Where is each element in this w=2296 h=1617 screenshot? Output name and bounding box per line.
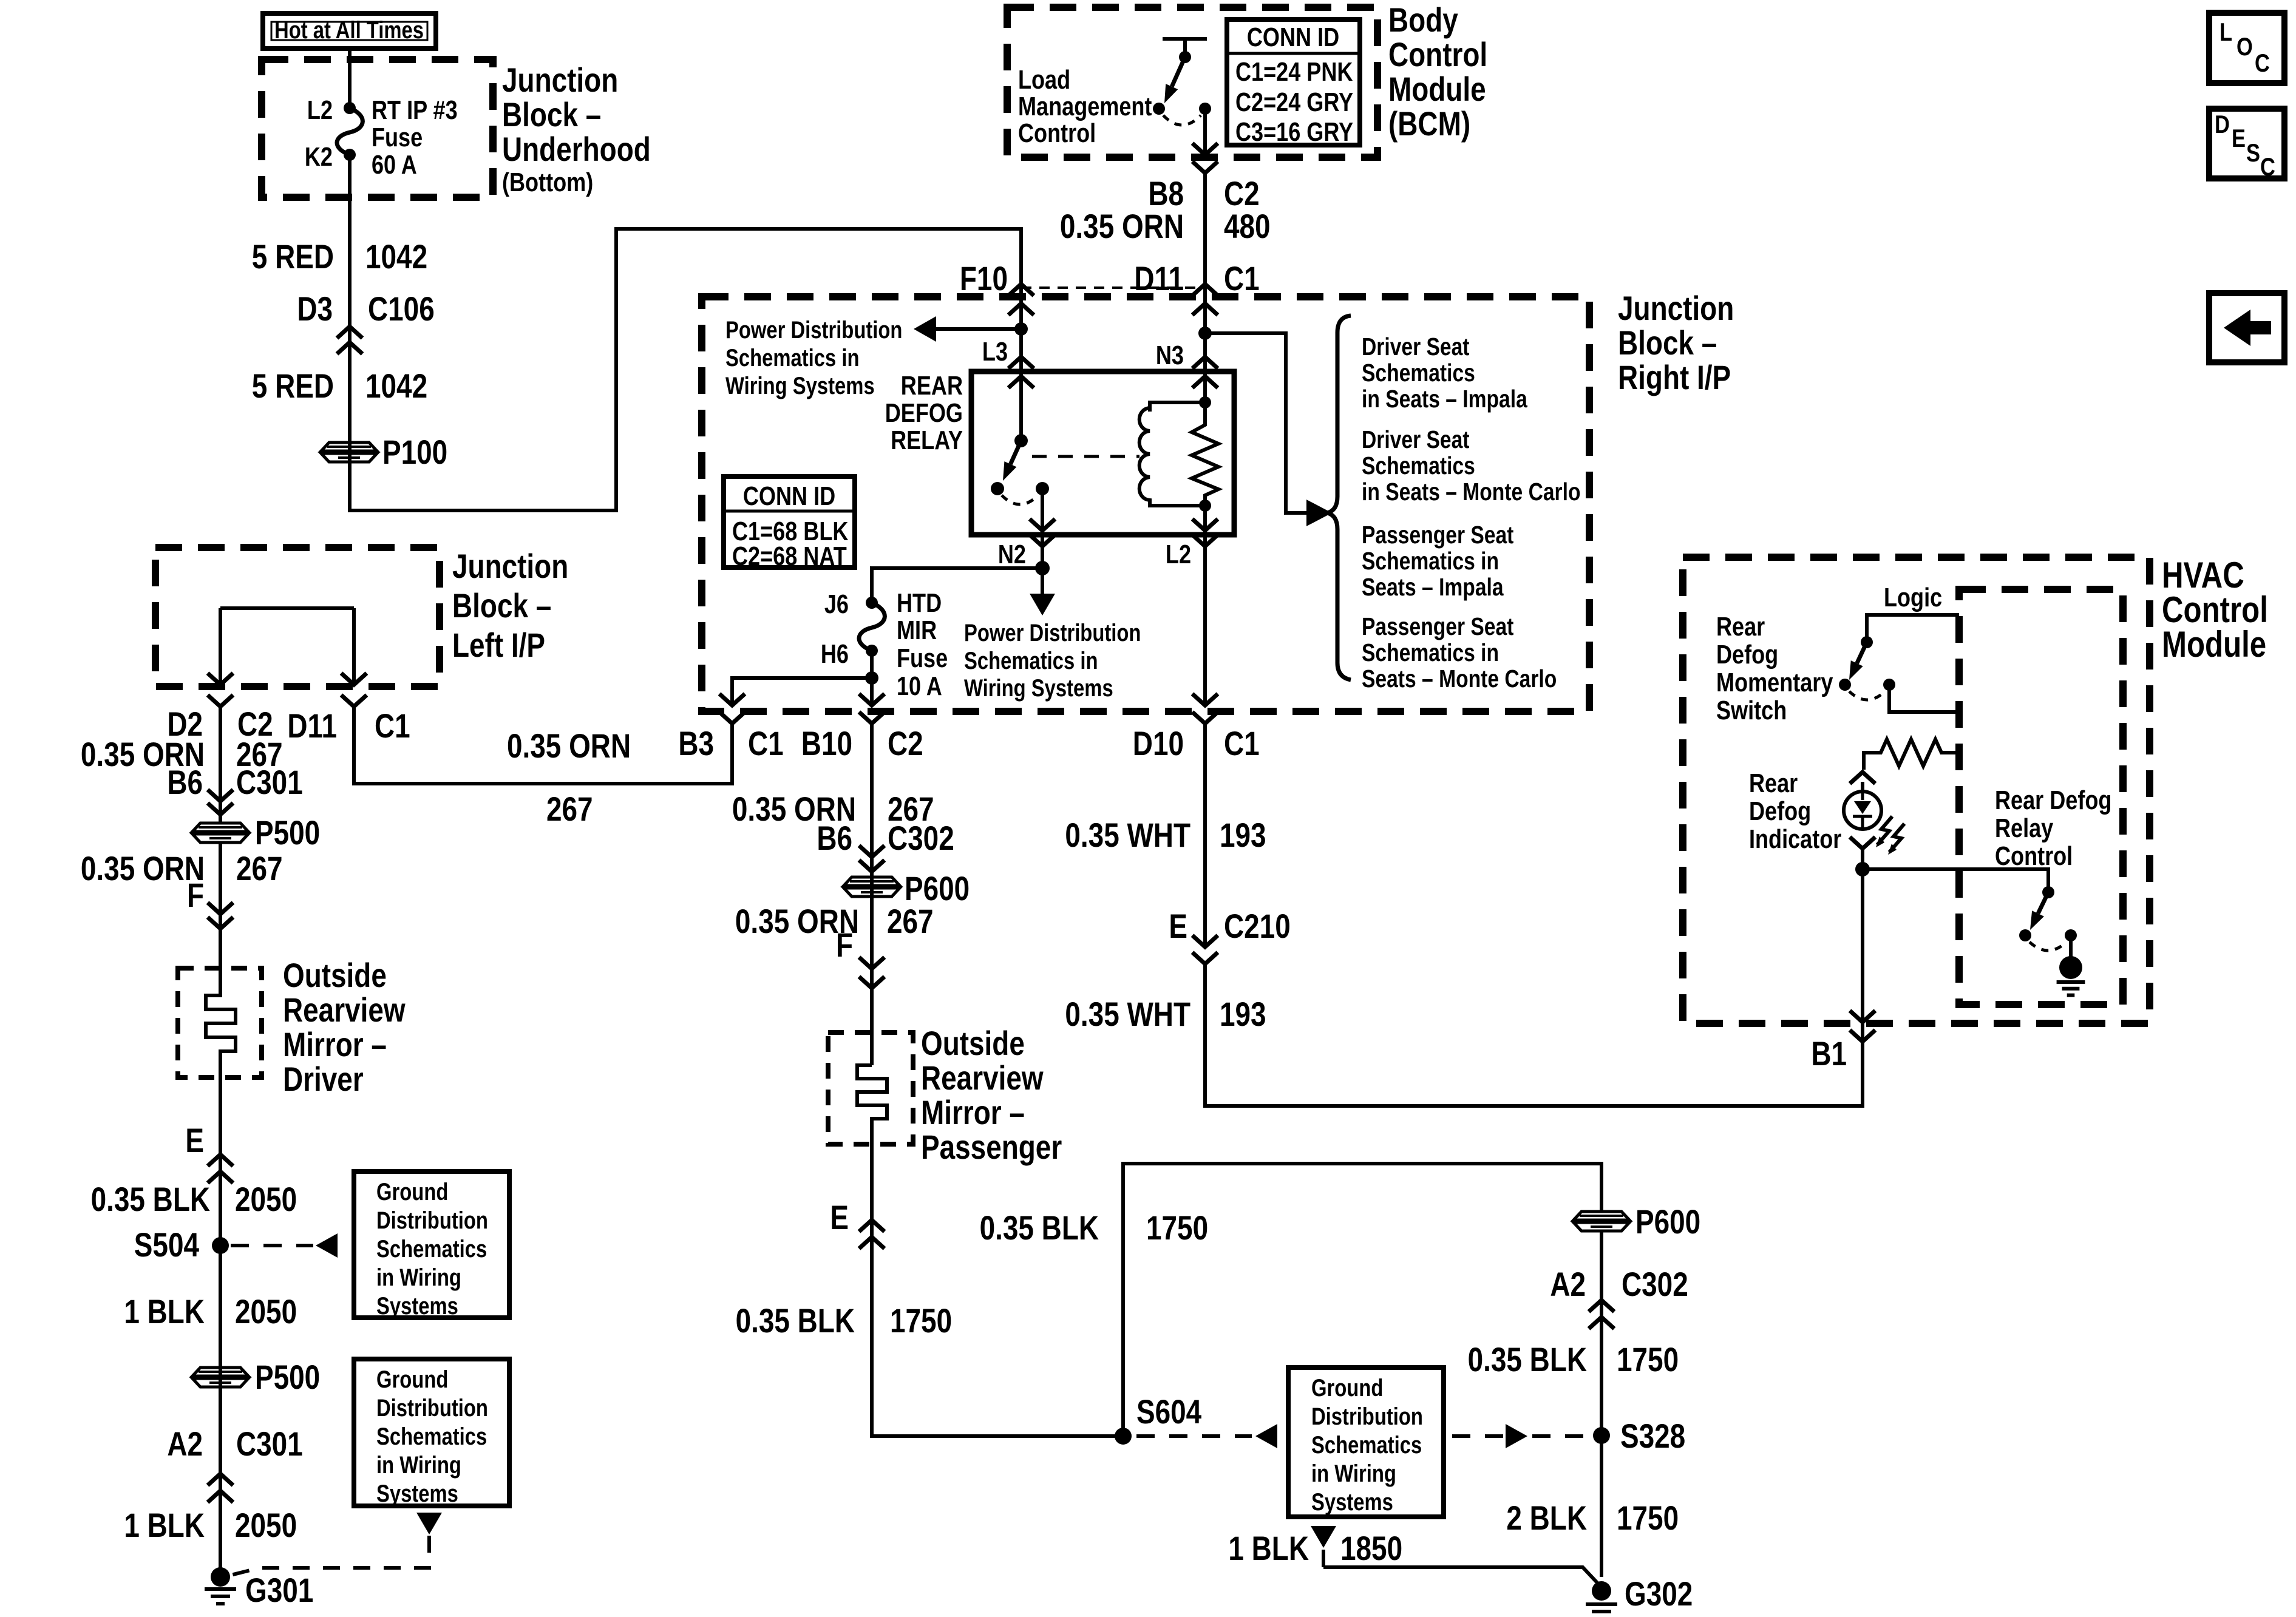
wire left IP D2 drop xyxy=(219,608,222,685)
connector crossing below left C1 xyxy=(341,695,367,707)
svg-text:B6: B6 xyxy=(817,819,852,857)
label 0.35 BLK (driver) xyxy=(91,1181,210,1218)
svg-text:Schematics: Schematics xyxy=(1362,452,1475,480)
fuse HTD MIR 10 A element xyxy=(859,603,885,651)
wire N3 to coil top xyxy=(1203,371,1207,402)
svg-text:E: E xyxy=(185,1122,204,1159)
node relay control pivot dot xyxy=(2042,886,2054,898)
label C2 (B10) xyxy=(888,725,923,762)
svg-text:F: F xyxy=(836,926,853,964)
label 1750 (s328) xyxy=(1617,1341,1679,1378)
label HVAC Control Module xyxy=(2162,554,2268,665)
svg-text:C1: C1 xyxy=(375,707,410,745)
wire coil bottom branch xyxy=(1150,504,1205,506)
svg-text:0.35 ORN: 0.35 ORN xyxy=(1060,208,1184,245)
label S504 xyxy=(134,1226,200,1264)
svg-text:RT IP #3: RT IP #3 xyxy=(372,95,458,125)
node indicator junction dot xyxy=(1855,862,1870,876)
connector chevron above LED xyxy=(1850,772,1875,784)
svg-text:Rear: Rear xyxy=(1749,768,1798,798)
wire 0.35 WHT 193 lower to HVAC B1 xyxy=(1205,964,1863,1106)
svg-text:Defog: Defog xyxy=(1749,796,1811,826)
relay control switch lever xyxy=(2030,892,2048,930)
label Load Management Control xyxy=(1018,65,1152,148)
pin label B6 (C302) xyxy=(817,819,852,857)
svg-text:Wiring Systems: Wiring Systems xyxy=(725,372,875,399)
dashed reference S604 to ground distribution xyxy=(1136,1424,1277,1448)
svg-text:Passenger: Passenger xyxy=(921,1128,1062,1166)
svg-text:0.35 WHT: 0.35 WHT xyxy=(1065,816,1190,854)
wire F10 to L3 node xyxy=(1019,297,1023,371)
label 2 BLK xyxy=(1506,1499,1587,1537)
pin label L3 xyxy=(982,337,1008,367)
wire 0.35 ORN 267 to driver mirror xyxy=(219,707,222,824)
wire H6 down to splice xyxy=(870,651,874,678)
junction block - left IP (dashed box) xyxy=(155,547,440,686)
pin label B6 (C301) xyxy=(167,764,203,801)
label 0.35 WHT (2) xyxy=(1065,995,1190,1033)
label 0.35 ORN (pass) xyxy=(732,790,856,828)
grommet P500 (ground side) xyxy=(192,1368,248,1387)
svg-text:Left I/P: Left I/P xyxy=(452,626,545,664)
label 193 xyxy=(1220,816,1266,854)
arrow at D10 exit xyxy=(1192,694,1218,705)
body control module BCM (dashed box) xyxy=(1007,7,1377,157)
wire left IP C1 drop xyxy=(352,608,356,685)
svg-text:2050: 2050 xyxy=(235,1507,297,1544)
svg-text:in Wiring: in Wiring xyxy=(1311,1460,1396,1487)
label xyxy=(502,96,651,197)
label 0.35 ORN (driver) xyxy=(81,736,205,773)
wire 0.35 ORN 267 B3 to left IP C1 xyxy=(354,705,732,784)
svg-text:Fuse: Fuse xyxy=(372,123,423,152)
reference arrow to power distribution (left) xyxy=(914,316,1021,342)
svg-text:D3: D3 xyxy=(297,290,333,328)
connector crossing at passenger mirror E xyxy=(859,1220,885,1249)
svg-text:1750: 1750 xyxy=(1146,1209,1208,1247)
svg-text:Outside: Outside xyxy=(921,1025,1025,1062)
pin label B1 xyxy=(1811,1035,1847,1073)
pin label E (passenger) xyxy=(830,1199,849,1236)
wire relay switch arm feed xyxy=(1019,371,1023,441)
splice S504 xyxy=(212,1237,229,1254)
label 1 BLK (1850) xyxy=(1228,1530,1309,1567)
label Junction Block - Right I/P xyxy=(1618,290,1734,396)
wire P600 to mirror passenger xyxy=(870,896,874,1065)
label 0.35 BLK (s604) xyxy=(980,1209,1099,1247)
node relay contact right dot xyxy=(1036,482,1049,495)
svg-text:N3: N3 xyxy=(1156,341,1184,370)
wire BCM output to B8 xyxy=(1203,109,1207,157)
label Body Control Module (BCM) xyxy=(1388,1,1487,143)
grommet P500 xyxy=(192,823,248,842)
wire 5 RED 1042 from fuse K2 down to P100 xyxy=(348,155,352,452)
svg-text:1750: 1750 xyxy=(1617,1341,1679,1378)
label box Hot at All Times xyxy=(263,13,436,49)
svg-text:Schematics in: Schematics in xyxy=(725,344,859,371)
svg-text:Ground: Ground xyxy=(376,1366,448,1393)
svg-text:Control: Control xyxy=(1018,118,1096,148)
svg-text:2050: 2050 xyxy=(235,1181,297,1218)
svg-text:L2: L2 xyxy=(1166,540,1191,569)
svg-text:Right I/P: Right I/P xyxy=(1618,359,1731,396)
svg-text:2 BLK: 2 BLK xyxy=(1506,1499,1587,1537)
pin label F (passenger) xyxy=(836,926,853,964)
node BCM switch contact right xyxy=(1199,103,1211,115)
svg-text:Passenger Seat: Passenger Seat xyxy=(1362,521,1514,549)
svg-text:Junction: Junction xyxy=(502,61,618,99)
svg-text:Logic: Logic xyxy=(1884,583,1942,612)
conn id table junction block right IP xyxy=(724,476,855,571)
ground G301 xyxy=(205,1567,236,1604)
svg-text:0.35 BLK: 0.35 BLK xyxy=(1468,1341,1587,1378)
svg-text:(Bottom): (Bottom) xyxy=(502,168,593,197)
svg-text:S604: S604 xyxy=(1136,1393,1202,1431)
relay coil winding xyxy=(1140,408,1150,506)
label 0.35 ORN (driver 2) xyxy=(81,850,205,887)
label 1750 (s604) xyxy=(1146,1209,1208,1247)
connector crossing below relay N2 xyxy=(1030,535,1055,546)
svg-text:Rearview: Rearview xyxy=(921,1059,1044,1097)
svg-text:S: S xyxy=(2246,139,2260,168)
svg-text:in Seats – Impala: in Seats – Impala xyxy=(1362,385,1528,413)
pin label F (driver) xyxy=(187,876,204,914)
svg-text:Body: Body xyxy=(1388,1,1458,39)
svg-text:Hot at All Times: Hot at All Times xyxy=(274,16,424,44)
reference arrow G301 to ground distribution box xyxy=(416,1513,442,1534)
svg-text:C301: C301 xyxy=(236,1425,303,1463)
resistor rear defog indicator xyxy=(1864,739,1959,770)
label 267 (driver 2) xyxy=(236,850,283,887)
svg-text:C1: C1 xyxy=(748,725,784,762)
svg-text:C210: C210 xyxy=(1224,907,1291,945)
svg-text:P100: P100 xyxy=(382,433,447,471)
wire junction to relay control switch xyxy=(1863,869,2048,892)
arrow at HVAC B1 exit xyxy=(1850,1011,1875,1022)
arrow at relay N2 exit xyxy=(1030,519,1055,531)
connector crossing at BCM B8 output xyxy=(1192,143,1218,173)
svg-text:Underhood: Underhood xyxy=(502,131,651,168)
svg-text:Schematics in: Schematics in xyxy=(1362,547,1499,575)
svg-text:267: 267 xyxy=(887,903,934,940)
svg-text:Seats – Impala: Seats – Impala xyxy=(1362,573,1504,601)
reference box Ground Distribution Schematics (S604/S328) xyxy=(1288,1368,1444,1517)
svg-text:1 BLK: 1 BLK xyxy=(124,1507,205,1544)
dashed reference G301 path xyxy=(228,1536,429,1576)
grommet P100 xyxy=(321,442,377,462)
svg-text:193: 193 xyxy=(1220,816,1266,854)
label 2050 (3) xyxy=(235,1507,297,1544)
svg-text:Power Distribution: Power Distribution xyxy=(964,619,1141,646)
svg-text:REAR: REAR xyxy=(901,371,963,401)
label RT IP #3 Fuse 60 A xyxy=(372,95,458,180)
node relay control contact left xyxy=(2019,929,2031,941)
pin label E (C210) xyxy=(1169,907,1187,945)
label Passenger Seat Schematics in Seats - Monte Carlo xyxy=(1362,612,1557,693)
label C2 (left IP) xyxy=(237,705,273,743)
svg-text:J6: J6 xyxy=(824,589,849,619)
reference box Ground Distribution Schematics (S504) xyxy=(354,1171,509,1320)
rear defog relay control (dashed box) xyxy=(1959,589,2123,1005)
label 1042 (2) xyxy=(365,367,427,405)
wire P500 to mirror driver xyxy=(219,842,222,929)
svg-text:A2: A2 xyxy=(1550,1266,1586,1303)
svg-text:0.35 BLK: 0.35 BLK xyxy=(736,1302,855,1340)
label C106 xyxy=(368,290,435,328)
node relay switch pivot dot xyxy=(1014,434,1028,447)
svg-text:DEFOG: DEFOG xyxy=(885,398,963,428)
connector crossing at driver mirror F xyxy=(208,903,233,929)
rear defog relay box xyxy=(971,371,1234,535)
svg-text:C: C xyxy=(2255,49,2270,78)
wire N3 branch to seat schematics reference xyxy=(1205,333,1306,513)
svg-text:Rearview: Rearview xyxy=(283,991,406,1029)
svg-text:S504: S504 xyxy=(134,1226,200,1264)
svg-text:K2: K2 xyxy=(305,142,333,172)
svg-text:C302: C302 xyxy=(888,819,954,857)
node coil bottom junction dot xyxy=(1199,500,1211,512)
label S604 xyxy=(1136,1393,1202,1431)
svg-text:P500: P500 xyxy=(255,814,320,852)
arrow at relay L2 exit xyxy=(1192,519,1218,531)
pin label E (driver) xyxy=(185,1122,204,1159)
heater element mirror passenger xyxy=(857,1065,887,1144)
svg-text:C302: C302 xyxy=(1622,1266,1688,1303)
label 0.35 BLK (s328) xyxy=(1468,1341,1587,1378)
svg-text:Relay: Relay xyxy=(1995,813,2054,843)
svg-text:C3=16 GRY: C3=16 GRY xyxy=(1235,117,1353,147)
svg-text:Switch: Switch xyxy=(1716,696,1787,725)
label Junction Block - Left I/P xyxy=(452,547,568,664)
label P500 (2) xyxy=(255,1358,320,1396)
svg-text:Module: Module xyxy=(1388,70,1486,108)
node H6 terminal dot xyxy=(866,645,878,657)
svg-text:P500: P500 xyxy=(255,1358,320,1396)
svg-text:Momentary: Momentary xyxy=(1716,668,1833,697)
connector crossing below relay L2 xyxy=(1192,535,1218,546)
svg-text:Driver Seat: Driver Seat xyxy=(1362,333,1470,361)
svg-text:1750: 1750 xyxy=(890,1302,952,1340)
svg-text:F: F xyxy=(187,876,204,914)
label HTD MIR Fuse 10 A xyxy=(897,588,948,701)
svg-text:S328: S328 xyxy=(1620,1417,1685,1455)
svg-text:1 BLK: 1 BLK xyxy=(124,1293,205,1331)
svg-text:C2: C2 xyxy=(888,725,923,762)
svg-text:Wiring Systems: Wiring Systems xyxy=(964,674,1113,702)
svg-text:Control: Control xyxy=(1995,841,2073,871)
label REAR DEFOG RELAY xyxy=(885,371,963,455)
pin label D3 xyxy=(297,290,333,328)
svg-text:L: L xyxy=(2220,18,2232,47)
node L3 junction dot xyxy=(1014,322,1028,336)
svg-text:(BCM): (BCM) xyxy=(1388,105,1470,143)
label C2 (BCM) xyxy=(1224,175,1260,212)
label 267 (pass 2) xyxy=(887,903,934,940)
label Junction Block - Underhood xyxy=(502,61,618,99)
svg-text:Block –: Block – xyxy=(502,96,601,134)
svg-text:Schematics: Schematics xyxy=(1362,359,1475,387)
label Outside Rearview Mirror - Driver xyxy=(283,957,406,1098)
junction block - underhood (dashed box) xyxy=(262,59,493,197)
svg-text:0.35 WHT: 0.35 WHT xyxy=(1065,995,1190,1033)
connector C301 ground in-line symbol xyxy=(208,1474,233,1502)
node N2 branch junction dot xyxy=(1035,561,1050,575)
svg-text:Mirror –: Mirror – xyxy=(283,1026,387,1063)
label 1750 (pass) xyxy=(890,1302,952,1340)
svg-text:C2=68 NAT: C2=68 NAT xyxy=(732,541,847,571)
svg-text:C106: C106 xyxy=(368,290,435,328)
svg-text:Rear: Rear xyxy=(1716,612,1765,642)
label C1 (B3) xyxy=(748,725,784,762)
connector C301 in-line symbol xyxy=(208,790,233,815)
svg-text:P600: P600 xyxy=(1635,1203,1700,1241)
dashed arc momentary switch throw xyxy=(1849,691,1885,700)
wire 0.35 BLK 2050 to S504 xyxy=(219,1171,222,1577)
wire indicator junction to B1 xyxy=(1861,869,1864,1023)
wire momentary switch output xyxy=(1889,685,1959,712)
wire resistor to LED xyxy=(1861,782,1864,793)
svg-text:1750: 1750 xyxy=(1617,1499,1679,1537)
svg-text:Block –: Block – xyxy=(1618,324,1717,362)
svg-text:D11: D11 xyxy=(287,707,337,745)
svg-text:HTD: HTD xyxy=(897,588,942,618)
svg-text:Junction: Junction xyxy=(452,547,568,585)
connector crossing at relay L3 xyxy=(1008,357,1034,388)
splice S604 xyxy=(1115,1428,1132,1445)
svg-text:0.35 ORN: 0.35 ORN xyxy=(81,850,205,887)
svg-text:P600: P600 xyxy=(905,870,970,907)
svg-text:D: D xyxy=(2215,110,2230,139)
ground inside relay control xyxy=(2057,935,2085,995)
label P100 xyxy=(382,433,447,471)
connector crossing below D10 xyxy=(1192,712,1218,724)
label 1042 xyxy=(365,238,427,276)
svg-text:5 RED: 5 RED xyxy=(252,367,334,405)
label G302 xyxy=(1625,1575,1693,1613)
pin label N3 xyxy=(1156,341,1184,370)
connector crossing at D11 C1 xyxy=(1192,284,1218,315)
svg-text:0.35 BLK: 0.35 BLK xyxy=(980,1209,1099,1247)
node BCM switch contact left xyxy=(1153,103,1165,115)
svg-text:Indicator: Indicator xyxy=(1749,824,1842,854)
svg-text:Systems: Systems xyxy=(376,1480,458,1507)
dashed arc BCM switch throw xyxy=(1163,115,1201,125)
ground G302 xyxy=(1586,1581,1617,1617)
connector crossing at F10 xyxy=(1008,284,1034,315)
label 5 RED (2) xyxy=(252,367,334,405)
dashed reference to S328 xyxy=(1452,1424,1588,1448)
svg-text:10 A: 10 A xyxy=(897,671,942,701)
wire left IP internal bus xyxy=(220,606,354,610)
outside rearview mirror driver (dashed box) xyxy=(178,968,262,1077)
svg-text:L2: L2 xyxy=(307,95,333,125)
label 1 BLK (2) xyxy=(124,1507,205,1544)
fuse RT IP #3 60 A element xyxy=(337,108,362,155)
svg-text:Defog: Defog xyxy=(1716,640,1778,670)
node N3 junction dot xyxy=(1198,327,1212,340)
svg-text:60 A: 60 A xyxy=(372,150,417,180)
label C1 (D10) xyxy=(1224,725,1260,762)
label 267 (link) xyxy=(546,790,593,828)
label 193 (2) xyxy=(1220,995,1266,1033)
label 0.35 WHT xyxy=(1065,816,1190,854)
svg-text:Fuse: Fuse xyxy=(897,643,948,673)
label 267 (pass) xyxy=(888,790,934,828)
connector C302 in-line symbol xyxy=(859,846,885,872)
arrow at D2 exit xyxy=(208,673,233,685)
svg-text:Schematics: Schematics xyxy=(376,1235,487,1263)
label 480 xyxy=(1224,208,1271,245)
svg-text:N2: N2 xyxy=(998,540,1026,569)
pin label F10 xyxy=(960,260,1008,297)
label Driver Seat Schematics in Seats - Impala xyxy=(1362,333,1528,413)
node K2 terminal dot xyxy=(344,149,356,161)
svg-text:B8: B8 xyxy=(1148,175,1184,212)
svg-text:G302: G302 xyxy=(1625,1575,1693,1613)
connector crossing below B3 xyxy=(719,712,745,724)
wire fuse output to B3 xyxy=(732,678,872,705)
wire relay N2 contact down xyxy=(1041,489,1044,535)
svg-text:D10: D10 xyxy=(1133,725,1184,762)
wire 1 BLK 1850 to G302 xyxy=(1323,1550,1601,1587)
svg-text:Block –: Block – xyxy=(452,587,551,625)
legend box LOC xyxy=(2209,13,2284,83)
pin label B3 xyxy=(678,725,714,762)
label 1850 xyxy=(1340,1530,1402,1567)
svg-text:C2=24 GRY: C2=24 GRY xyxy=(1235,87,1353,117)
svg-text:1 BLK: 1 BLK xyxy=(1228,1530,1309,1567)
label Power Distribution Schematics in Wiring Systems (top) xyxy=(725,316,902,399)
svg-text:C301: C301 xyxy=(236,764,303,801)
label 2050 xyxy=(235,1181,297,1218)
svg-text:193: 193 xyxy=(1220,995,1266,1033)
heater element mirror driver xyxy=(206,929,236,1077)
reference arrow into seat schematics brace xyxy=(1306,500,1332,526)
svg-text:C1: C1 xyxy=(1224,725,1260,762)
svg-text:H6: H6 xyxy=(821,639,849,669)
pin label K2 xyxy=(305,142,333,172)
svg-text:1042: 1042 xyxy=(365,238,427,276)
node J6 terminal dot xyxy=(866,597,878,609)
pin label H6 xyxy=(821,639,849,669)
label 0.35 ORN (pass 2) xyxy=(735,903,859,940)
connector crossing at relay N3 xyxy=(1192,357,1218,388)
conn id table BCM xyxy=(1227,19,1360,147)
pin label A2 (C301) xyxy=(167,1425,203,1463)
connector crossing at passenger mirror F xyxy=(859,957,885,988)
wire S604 up and over to P600 xyxy=(1123,1164,1601,1436)
label 1750 (2blk) xyxy=(1617,1499,1679,1537)
svg-text:Rear Defog: Rear Defog xyxy=(1995,785,2111,815)
pin label L2 (relay) xyxy=(1166,540,1191,569)
svg-text:C2: C2 xyxy=(1224,175,1260,212)
svg-text:Load: Load xyxy=(1018,65,1070,95)
svg-text:Distribution: Distribution xyxy=(1311,1403,1423,1430)
svg-text:2050: 2050 xyxy=(235,1293,297,1331)
dashed arc relay switch throw xyxy=(1002,495,1038,504)
svg-text:CONN ID: CONN ID xyxy=(1247,22,1339,52)
node momentary switch top dot xyxy=(1861,636,1873,648)
wire relay L2 down xyxy=(1203,506,1207,535)
svg-text:0.35 ORN: 0.35 ORN xyxy=(507,727,631,765)
svg-text:Module: Module xyxy=(2162,623,2266,665)
hvac control module (dashed box) xyxy=(1683,557,2150,1023)
label 0.35 ORN (link) xyxy=(507,727,631,765)
svg-text:C: C xyxy=(2260,153,2275,181)
svg-text:G301: G301 xyxy=(245,1571,313,1609)
legend box DESC xyxy=(2209,109,2284,181)
svg-text:Distribution: Distribution xyxy=(376,1394,488,1422)
